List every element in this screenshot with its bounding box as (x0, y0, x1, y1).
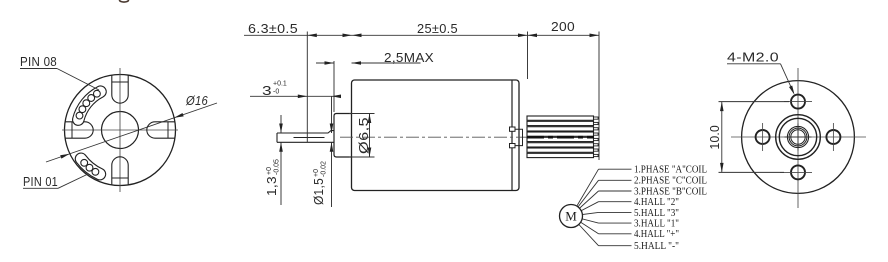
vertical centerline (797, 68, 799, 208)
horizontal centerline (62, 129, 178, 131)
svg-text:1.PHASE "A"COIL: 1.PHASE "A"COIL (634, 165, 707, 176)
left mounting hole M2 (756, 130, 770, 144)
top mounting hole M2 (791, 95, 805, 109)
witness line shaft tip (306, 32, 308, 143)
bearing ring 1 (787, 126, 808, 147)
svg-text:M: M (565, 209, 577, 224)
svg-text:PIN 08: PIN 08 (20, 55, 57, 69)
rotated dim text Ø1,5 +0/-0.02 (312, 161, 328, 205)
svg-text:3.HALL "1": 3.HALL "1" (634, 219, 679, 230)
motor body outline (352, 80, 520, 191)
lower slot pins (3 holes) (81, 159, 99, 175)
top notch slot (112, 75, 128, 103)
svg-text:3: 3 (262, 84, 272, 98)
svg-text:+0: +0 (313, 169, 320, 177)
svg-text:Ø16: Ø16 (185, 94, 208, 108)
outer body circle (left view) (65, 75, 176, 186)
endbell joint line (511, 81, 513, 191)
front bearing boss (334, 114, 352, 158)
right hole cross tick (832, 123, 834, 151)
top hole cross tick (784, 101, 812, 103)
svg-text:1,3: 1,3 (265, 176, 279, 196)
outer flange circle (742, 81, 855, 194)
svg-text:+0: +0 (266, 167, 273, 175)
shaft bottom edge (277, 141, 334, 143)
svg-text:4.HALL "2": 4.HALL "2" (634, 197, 679, 208)
svg-text:3.PHASE "B"COIL: 3.PHASE "B"COIL (634, 186, 707, 197)
horizontal centerline (731, 136, 866, 138)
dimension 2,5MAX (316, 62, 334, 64)
shaft circle (791, 130, 805, 144)
witness line boss face (333, 61, 335, 112)
right mounting hole M2 (826, 130, 840, 144)
bold centerline across leads (527, 136, 594, 139)
top dimension line row (244, 34, 599, 36)
motor symbol M (560, 205, 583, 228)
svg-text:Ø6,5: Ø6,5 (357, 117, 371, 154)
boss ring outer (776, 115, 821, 160)
svg-text:5.HALL "-": 5.HALL "-" (634, 241, 679, 252)
bottom notch slot (112, 157, 128, 185)
svg-text:10.0: 10.0 (708, 125, 722, 150)
terminal clip pad lower (510, 144, 516, 148)
rotated dim text Ø6,5 (357, 117, 371, 154)
diameter dimension Ø16 leader (46, 103, 217, 162)
svg-text:4.HALL "+": 4.HALL "+" (634, 229, 679, 240)
centerline dash-dot (340, 136, 527, 138)
bottom hole cross tick (780, 171, 812, 173)
svg-text:+0.1: +0.1 (273, 81, 287, 88)
upper pin slot (arc stadium) (78, 92, 100, 120)
lead wires ribbon (8 wires) (527, 116, 598, 158)
boss ring 2 (779, 118, 816, 155)
svg-text:-0.05: -0.05 (274, 159, 281, 175)
terminal clip pad upper (510, 127, 516, 131)
witness line body right (527, 32, 529, 80)
dimension 10.0 witnesses (719, 101, 790, 103)
shaft crosshair (785, 136, 812, 138)
svg-text:2.PHASE "C"COIL: 2.PHASE "C"COIL (634, 176, 707, 187)
svg-text:PIN 01: PIN 01 (23, 175, 58, 189)
4-M2.0 leader (727, 63, 781, 65)
svg-text:6.3±0.5: 6.3±0.5 (248, 22, 298, 36)
bearing ring 2 (789, 128, 807, 146)
dimension Ø6,5 witnesses (349, 113, 375, 115)
svg-text:4-M2.0: 4-M2.0 (727, 51, 779, 65)
terminal clip bracket (515, 129, 523, 145)
legend wire stubs (599, 169, 632, 246)
svg-text:-0: -0 (273, 89, 279, 96)
shaft end face (276, 133, 278, 142)
vertical centerline (119, 68, 121, 192)
witness line lead ends (598, 32, 600, 161)
lower pin slot (arc stadium) (81, 159, 100, 174)
svg-text:200: 200 (551, 20, 575, 34)
svg-text:2,5MAX: 2,5MAX (384, 51, 434, 65)
legend fan wires (571, 169, 599, 246)
PIN 08 leader wire (20, 68, 57, 70)
rotated dim text 10.0 (708, 125, 722, 150)
shaft flat / center dash (294, 137, 325, 139)
dim line for Ø1,5 / 3 witness (331, 96, 333, 133)
left notch slot (65, 122, 93, 138)
right notch slot (147, 122, 175, 138)
PIN 01 leader wire (23, 187, 58, 189)
cropped glyph fragment at top (120, 0, 129, 2)
svg-text:5.HALL "3": 5.HALL "3" (634, 208, 679, 219)
svg-text:Ø1,5: Ø1,5 (312, 178, 326, 205)
dimension 10.0 line (721, 102, 723, 173)
dimension Ø6,5 line (369, 114, 371, 158)
center shaft hole (102, 112, 139, 149)
left hole cross tick (762, 123, 764, 151)
svg-text:-0.02: -0.02 (321, 161, 328, 177)
upper slot pins (5 holes) (76, 90, 100, 119)
svg-text:25±0.5: 25±0.5 (417, 22, 458, 36)
dimension 3 +0.1/-0 (250, 95, 341, 97)
bottom mounting hole M2 (791, 165, 805, 179)
shaft top edge (277, 131, 334, 133)
rotated dim text 1,3 +0/-0.05 (265, 159, 281, 196)
dim line for 1,3 (280, 115, 282, 133)
